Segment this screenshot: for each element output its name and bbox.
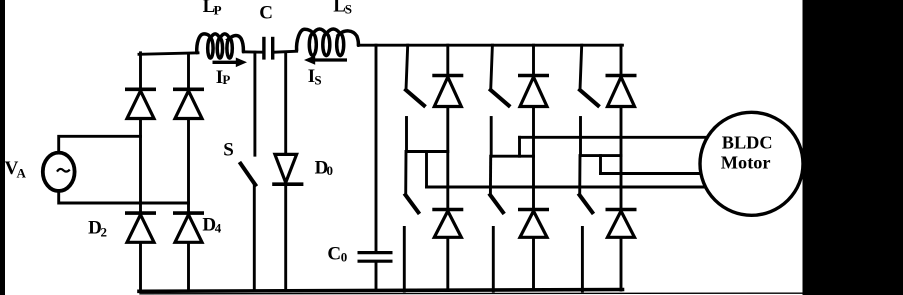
diode D1 [125,88,156,92]
svg-text:P: P [214,3,222,18]
arrow IS [314,58,347,61]
diode D16 [518,208,549,212]
svg-text:2: 2 [101,225,108,240]
wire LP to C [243,50,263,53]
svg-text:Motor: Motor [721,153,771,173]
svg-text:C: C [327,243,341,264]
switch Q2 upper lead [578,156,581,195]
wire D0 lower lead [284,186,287,291]
switch Q6 blade [490,195,503,212]
switch S blade [241,164,256,185]
wire phase stub leg3 down [599,156,602,174]
ac source VA [43,153,75,191]
wire phase rail leg 1 [407,150,448,153]
wire phase stub leg2 up [518,137,521,156]
wire top bus [358,44,622,47]
diode D12 [606,208,637,212]
switch Q3 upper lead [491,45,493,90]
svg-text:0: 0 [341,250,348,265]
svg-text:S: S [345,2,352,17]
switch Q5 lower lead [579,118,582,156]
wire D0 upper lead [284,52,287,154]
svg-text:4: 4 [215,221,222,236]
svg-text:BLDC: BLDC [722,132,773,152]
wire bridge right leg [187,54,190,290]
wire bottom bus [139,290,623,292]
wire bridge left leg [139,53,142,291]
svg-text:0: 0 [327,163,334,178]
svg-text:S: S [314,72,321,87]
wire C0 lower lead [375,262,378,290]
switch Q1 lower lead [405,118,408,152]
diode D11 [432,74,463,78]
inductor LS [297,29,359,56]
diode D14 [432,208,463,212]
wire C to LS [274,51,297,52]
arrow IP [213,61,238,64]
switch Q6 upper lead [489,156,492,195]
switch Q2 blade [580,195,593,212]
wire diode leg 1 [446,45,449,290]
switch Q2 lower lead [581,228,584,292]
capacitor C0 [358,251,393,254]
wire phase stub leg1 down [425,152,428,188]
diode D15 [606,74,637,78]
switch Q1 upper lead [406,45,408,90]
wire VA top to bridge [59,136,141,153]
switch Q4 blade [406,195,419,212]
svg-text:A: A [17,165,27,180]
switch Q1 blade [406,90,424,106]
svg-text:C: C [259,3,273,24]
wire S upper lead [253,52,256,155]
wire phase line A [520,136,707,139]
capacitor C [262,37,265,60]
motor BLDC [700,112,803,215]
diode D4 [173,211,204,215]
wire phase rail leg 2 [491,155,533,158]
switch Q4 upper lead [404,152,407,196]
wire C0 upper lead [375,45,378,251]
switch Q3 blade [491,90,509,106]
wire bridge top [139,53,198,55]
switch Q5 upper lead [580,45,582,90]
wire phase line B [601,172,702,175]
thin bottom line [140,292,802,295]
wire S lower lead [253,185,256,291]
svg-text:P: P [222,72,230,87]
diode D2 [125,211,156,215]
wire phase line C [427,186,705,189]
wire diode leg 2 [532,45,535,290]
wire phase rail leg 3 [581,154,622,157]
diode D3 [173,88,204,92]
wire VA bottom to bridge [59,191,189,204]
image margins [0,0,5,295]
svg-text:S: S [223,140,234,161]
switch Q4 lower lead [403,228,406,292]
switch Q3 lower lead [490,118,493,157]
switch Q5 blade [580,90,598,106]
switch Q6 lower lead [492,228,495,292]
diode D0 [275,154,297,182]
wire diode leg 3 [620,45,623,290]
inductor LP [197,34,244,58]
diode D13 [518,74,549,78]
